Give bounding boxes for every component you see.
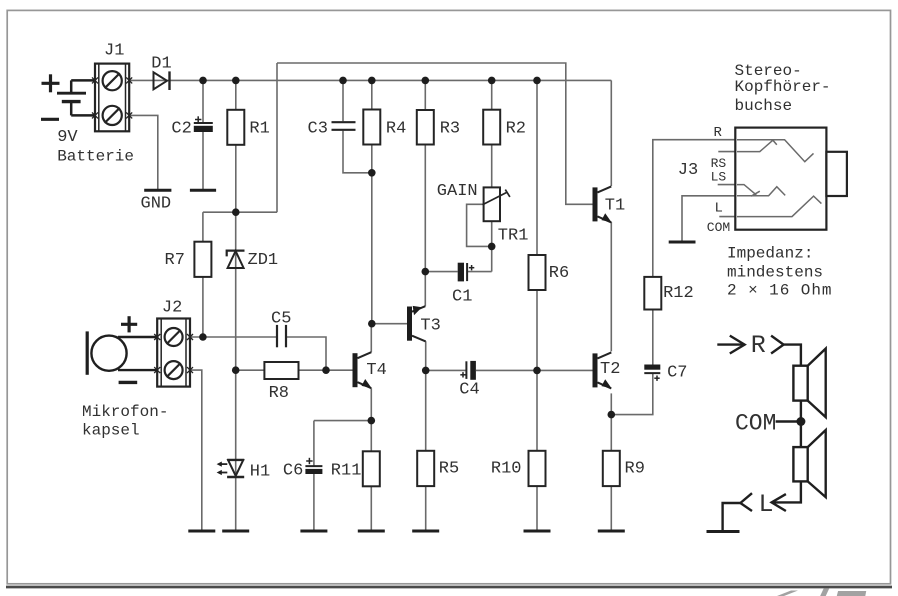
jack J3 tip contact R [737, 140, 814, 162]
wire jack RS stub [718, 151, 735, 153]
capacitor C7 [644, 365, 660, 381]
pin J2-2 left cross [154, 367, 160, 373]
node speaker COM [796, 417, 805, 426]
resistor R2 [483, 110, 500, 145]
ground bar below C2 [190, 189, 216, 192]
wire C5 right to R8 node [286, 337, 326, 370]
wire R5 bottom [425, 486, 427, 531]
jack J3 COM contact [737, 196, 821, 217]
pin J1-2 left cross [92, 112, 98, 118]
node R1-ZD1 [232, 208, 240, 216]
svg-text:C3: C3 [308, 119, 328, 138]
svg-text:TR1: TR1 [498, 226, 529, 245]
svg-text:mindestens: mindestens [727, 264, 823, 282]
speaker R input arrow [717, 336, 744, 354]
svg-text:L: L [715, 200, 723, 216]
ground GND symbol at J1 [144, 189, 171, 192]
resistor R5 [417, 451, 434, 486]
connector J1 [95, 64, 129, 132]
wire R9 bottom [610, 486, 612, 531]
node R4-T3base [368, 320, 376, 328]
svg-text:Kopfhörer-: Kopfhörer- [735, 78, 831, 96]
node rail-R2 [488, 77, 496, 85]
microphone capsule [87, 331, 157, 374]
svg-text:R: R [714, 125, 723, 141]
svg-text:R6: R6 [549, 264, 569, 283]
svg-text:kapsel: kapsel [82, 422, 140, 440]
mic plus sign [121, 316, 137, 332]
wire J2 bottom to ground [190, 370, 202, 531]
LED H1 emission arrows [217, 462, 228, 476]
wire R11 top [370, 421, 372, 452]
capacitor C2 [194, 116, 213, 132]
wire R8 row right to T4 base [299, 369, 353, 371]
svg-text:C7: C7 [667, 364, 687, 383]
wire J2 top row to C5 [190, 336, 277, 338]
wire speaker L to ground [723, 503, 741, 530]
ground bar J2 minus [188, 530, 215, 533]
svg-text:buchse: buchse [735, 97, 793, 115]
svg-text:COM: COM [735, 411, 776, 437]
wire R7 bottom segment [202, 277, 204, 337]
ground bar C6 [300, 530, 327, 533]
wire R5 top [425, 370, 427, 450]
svg-text:/5: /5 [798, 577, 867, 596]
wire T4 collector riser [370, 324, 372, 353]
transistor T1 [593, 186, 612, 222]
wire C3 bottom to R4 column [343, 131, 372, 173]
svg-text:R7: R7 [165, 251, 185, 270]
svg-text:GAIN: GAIN [437, 182, 478, 201]
pin J1-1 right cross [126, 77, 132, 83]
ground bar R10 [524, 530, 551, 533]
speaker L chevron [740, 493, 752, 511]
loudspeaker LS2 [793, 430, 825, 497]
wire T2 emitter drop [610, 393, 612, 414]
node T2emitter-C7-R9 [608, 411, 616, 419]
wire node A horizontal y212 [203, 211, 277, 213]
node rail-R1 [232, 77, 240, 85]
svg-text:T2: T2 [600, 360, 620, 379]
wire T1 emitter to T2 collector [610, 222, 612, 351]
node rail-R4 [368, 77, 376, 85]
wire GND stub from J1 [129, 115, 158, 189]
svg-text:2 × 16 Ohm: 2 × 16 Ohm [727, 282, 832, 300]
pin J2-1 right cross [187, 334, 193, 340]
wire C3 top [342, 80, 344, 121]
wire R4 bottom column to T3 base node [371, 145, 373, 324]
svg-text:H1: H1 [250, 463, 270, 482]
jack J3 tip contact L [737, 187, 785, 196]
wire C7 top to R12 [652, 310, 654, 365]
trimmer TR1 [483, 187, 510, 221]
node rail-R3 [422, 77, 430, 85]
svg-text:R12: R12 [663, 284, 694, 303]
wire C1 node to T3 emitter [424, 272, 426, 307]
node TR1-wiper [488, 243, 496, 251]
pin J2-2 right cross [187, 367, 193, 373]
svg-text:C1: C1 [452, 287, 472, 306]
wire TR1 bottom lead [491, 221, 493, 271]
zener diode ZD1 [227, 251, 245, 268]
wire R1 column [235, 80, 237, 109]
svg-text:L: L [759, 490, 774, 519]
svg-text:R9: R9 [625, 460, 645, 479]
wire jack COM stub [719, 216, 735, 218]
wire R7 top segment [202, 212, 204, 242]
svg-text:C4: C4 [459, 381, 479, 400]
capacitor C1 [458, 263, 475, 282]
svg-text:Stereo-: Stereo- [735, 62, 802, 80]
resistor R7 [194, 242, 211, 277]
wire R10 bottom [536, 486, 538, 531]
wire R10 top [536, 370, 538, 450]
pin J1-2 right cross [126, 112, 132, 118]
svg-text:Batterie: Batterie [57, 147, 134, 165]
ground bar R9 [598, 530, 625, 533]
pin J1-1 left cross [92, 77, 98, 83]
svg-text:J2: J2 [162, 298, 182, 317]
transistor T2 [593, 352, 612, 388]
speaker R chevron [771, 336, 784, 354]
resistor R1 [227, 110, 244, 145]
wire C2 bottom [202, 132, 204, 190]
svg-text:R2: R2 [506, 119, 526, 138]
svg-text:T1: T1 [605, 197, 625, 216]
diode D1 [154, 71, 170, 90]
wire V+ main rail [129, 79, 611, 81]
resistor R10 [529, 451, 546, 486]
svg-text:R4: R4 [386, 119, 406, 138]
wire R8 row left [236, 369, 265, 371]
node T3coll-C4-R5 [422, 367, 430, 375]
wire R1 bottom to node A [235, 145, 237, 212]
resistor R12 [644, 277, 661, 310]
ground bar H1 [222, 530, 249, 533]
svg-text:R11: R11 [331, 461, 362, 480]
speaker L arrow [772, 494, 786, 511]
wire T2 emitter node to R9 [610, 415, 612, 451]
node ZD1-R8 [232, 366, 240, 374]
wire R6 bottom to C4 row [536, 290, 538, 370]
capacitor C6 [305, 458, 322, 474]
svg-text:T4: T4 [366, 361, 386, 380]
loudspeaker LS1 [793, 349, 825, 418]
svg-text:D1: D1 [151, 54, 171, 73]
svg-text:9V: 9V [57, 128, 78, 147]
capacitor C3 [332, 122, 356, 130]
battery minus sign [41, 118, 59, 121]
wire T3 collector drop [425, 341, 427, 370]
svg-text:GND: GND [141, 195, 172, 214]
svg-text:R1: R1 [249, 119, 269, 138]
wire T1 collector drop [610, 80, 612, 186]
svg-text:R3: R3 [440, 119, 460, 138]
svg-text:Impedanz:: Impedanz: [727, 245, 813, 263]
wire T1 base feed upper line [277, 63, 593, 204]
wire R4 top [371, 80, 373, 109]
wire R2 top [491, 80, 493, 109]
wire jack LS stub [718, 184, 736, 186]
battery plus sign [42, 74, 60, 92]
transistor T4 [353, 352, 372, 388]
ground bar R5 [412, 530, 439, 533]
svg-text:R10: R10 [491, 460, 522, 479]
wire R3 top [424, 80, 426, 110]
wire C6 column top [313, 421, 315, 467]
wire C1 left [425, 271, 457, 273]
wire TR1 wiper loop [467, 204, 492, 246]
wire C7 bottom to T2 emitter node [611, 373, 653, 415]
node R3-C1 [422, 268, 430, 276]
wire C4 row right to T2 base [476, 369, 593, 371]
wire jack L to ground [682, 196, 735, 241]
connector J2 [157, 319, 190, 387]
svg-text:J3: J3 [678, 161, 698, 180]
wire R12 top to jack R [653, 140, 736, 277]
ground bar jack L [669, 241, 696, 244]
wire T3 base horizontal [372, 323, 407, 325]
svg-text:R: R [751, 331, 766, 360]
node rail-R6 [533, 77, 541, 85]
wire T4 emitter drop [370, 388, 372, 420]
svg-text:COM: COM [707, 220, 730, 235]
resistor R8 [264, 362, 298, 379]
wire LS2 bottom [772, 481, 801, 502]
svg-text:ZD1: ZD1 [248, 251, 279, 270]
ground bar speaker L [707, 530, 740, 533]
battery B1 [57, 80, 95, 115]
wire LS1 to COM [800, 401, 802, 448]
wire node A riser x277 [276, 63, 278, 212]
headphone jack J3 box [735, 128, 847, 230]
pin J2-1 left cross [154, 334, 160, 340]
svg-text:T3: T3 [420, 317, 440, 336]
node R6-R10-C4row [533, 367, 541, 375]
wire R6 top [536, 80, 538, 255]
node C3-R4 [368, 169, 376, 177]
resistor R11 [363, 451, 380, 486]
svg-text:J1: J1 [104, 42, 124, 61]
svg-text:C5: C5 [271, 310, 291, 329]
svg-text:Mikrofon-: Mikrofon- [82, 403, 168, 421]
capacitor C5 [277, 325, 286, 347]
resistor R4 [363, 110, 380, 145]
wire C1 right [467, 271, 492, 273]
capacitor C4 [460, 361, 476, 380]
page frame [777, 591, 798, 596]
wire R2 to TR1 [491, 145, 493, 188]
wire C2 top [202, 80, 204, 123]
transistor T3 [407, 306, 426, 342]
LED H1 [227, 460, 244, 477]
wire COM dash [776, 420, 797, 422]
node C5-R8 [322, 366, 330, 374]
svg-text:LS: LS [711, 170, 727, 185]
svg-text:R8: R8 [269, 384, 289, 403]
wire ZD1 H1 column [235, 212, 237, 531]
jack J3 switch contact LS [737, 185, 760, 197]
ground bar R11 [358, 530, 385, 533]
wire C4 row left [426, 369, 467, 371]
node rail-C3 [339, 77, 347, 85]
resistor R9 [603, 451, 620, 486]
svg-text:C2: C2 [171, 119, 191, 138]
node R7-J2 [199, 333, 207, 341]
node rail-C2 [199, 77, 207, 85]
wire C6 bottom [313, 474, 315, 531]
wire R11 bottom [370, 486, 372, 531]
resistor R3 [417, 110, 434, 145]
wire R3 bottom to C1 node [424, 145, 426, 272]
wire C6 top to T4 emitter node [314, 420, 371, 422]
mic minus sign [119, 381, 138, 384]
node T4emitter-C6 [368, 417, 376, 425]
svg-text:R5: R5 [439, 460, 459, 479]
svg-text:C6: C6 [283, 461, 303, 480]
resistor R6 [529, 255, 546, 290]
wire speaker R feed [784, 345, 801, 366]
jack J3 switch contact RS [737, 140, 777, 151]
